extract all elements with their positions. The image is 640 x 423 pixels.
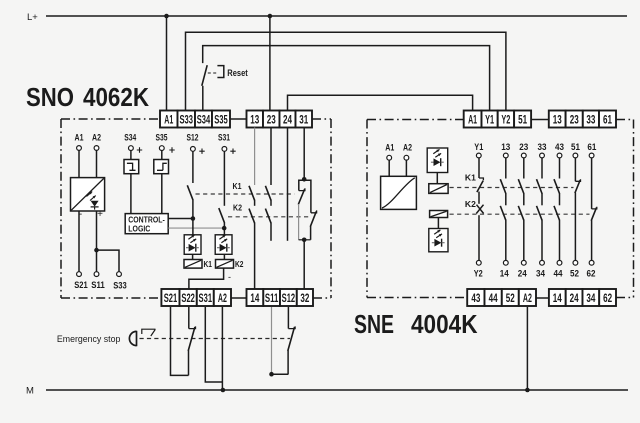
terminal Y2 (SNE): [498, 111, 514, 128]
terminal 43 (SNE): [467, 289, 484, 306]
wire L+ to SNO A1: [164, 14, 169, 111]
wire S31 to A2 node: [205, 307, 222, 382]
L+ supply rail: [27, 12, 627, 23]
wire K2 coil to S22: [189, 268, 231, 289]
svg-text:A2: A2: [403, 143, 412, 154]
wire power minus to S21 internal: [78, 211, 80, 272]
wire A2 to power supply (SNO): [96, 150, 98, 177]
svg-text:13: 13: [553, 115, 562, 127]
falling-edge detector box (S34): [124, 160, 139, 174]
svg-text:K2: K2: [465, 199, 476, 209]
svg-text:14: 14: [500, 269, 510, 280]
svg-text:4062K: 4062K: [83, 82, 149, 112]
power supply unit U1 (SNO): [71, 178, 105, 221]
svg-text:Y2: Y2: [474, 269, 483, 280]
wire A2 (SNE) to M rail: [525, 307, 530, 392]
wire A2 (SNO) to M rail: [221, 307, 226, 392]
terminal 23 (SNO): [263, 111, 280, 128]
svg-text:S35: S35: [214, 115, 228, 127]
svg-text:S33: S33: [113, 281, 127, 292]
K2 actuation dashed line (SNE): [450, 199, 590, 214]
wire A1 to power supply (SNO): [78, 150, 80, 177]
contact chain 23-24 (K1,K2 NO) (SNE): [518, 142, 529, 280]
terminal S11 (SNO): [263, 289, 280, 306]
svg-text:K1: K1: [465, 173, 476, 183]
svg-text:S21: S21: [164, 293, 178, 305]
svg-text:K1: K1: [204, 259, 213, 269]
wire S11 to emergency stop contact 2: [269, 307, 288, 377]
terminal 24 (SNO): [280, 111, 296, 128]
svg-text:A1: A1: [164, 115, 173, 127]
rising-edge detector box (S35): [154, 160, 169, 174]
svg-text:31: 31: [299, 115, 308, 127]
K1 actuation dashed line (SNE): [450, 173, 574, 188]
M supply rail: [26, 386, 628, 397]
terminal 33 (SNE): [583, 111, 599, 128]
terminal A1 (SNO): [160, 111, 178, 128]
terminal 44 (SNE): [485, 289, 502, 306]
terminal 34 (SNE): [583, 289, 600, 306]
wire branch to S33 internal: [97, 250, 120, 272]
contact chain 13-14 (K1,K2 NO) (SNE): [500, 142, 511, 280]
K1 actuation dashed line (SNO): [196, 181, 295, 194]
terminal 23 (SNE): [566, 111, 583, 128]
terminal 14 (SNO): [247, 289, 264, 306]
svg-text:4004K: 4004K: [411, 309, 478, 339]
terminal 24 (SNE): [566, 289, 583, 306]
node A2 internal (SNO): [92, 133, 101, 151]
contact chain 43-44 (K1,K2 NO) (SNE): [554, 142, 565, 280]
node S21 internal (SNO): [74, 272, 88, 291]
terminal A2 (SNE): [519, 289, 536, 306]
node S35 internal (SNO): [156, 133, 175, 153]
svg-text:S12: S12: [187, 133, 199, 144]
svg-text:61: 61: [587, 142, 597, 153]
svg-text:13: 13: [250, 115, 259, 127]
svg-text:S12: S12: [282, 293, 296, 305]
svg-text:51: 51: [518, 115, 527, 127]
terminal S31 (SNO): [197, 289, 214, 306]
svg-text:A2: A2: [523, 293, 532, 305]
CONTROL-LOGIC block (SNO): [125, 214, 168, 234]
terminal A2 (SNO): [214, 289, 231, 306]
svg-text:14: 14: [250, 293, 259, 305]
SNE 4004K module label: [354, 309, 478, 339]
terminal 52 (SNE): [502, 289, 519, 306]
svg-text:A1: A1: [385, 143, 395, 154]
LED indicator K2 (SNO): [215, 235, 232, 255]
relay coil K2 (SNE): [430, 211, 448, 218]
svg-text:S31: S31: [199, 293, 213, 305]
terminal 31 (SNO): [296, 111, 313, 128]
terminal Y1 (SNE): [482, 111, 498, 128]
svg-text:44: 44: [489, 293, 498, 305]
svg-text:M: M: [26, 386, 34, 397]
terminal 13 (SNE): [549, 111, 566, 128]
svg-text:62: 62: [587, 269, 596, 280]
node S31 internal (SNO): [218, 133, 236, 154]
wire S31 with K2 feedback contact: [219, 151, 225, 235]
contact chain 23 (K1,K2 NO): [265, 128, 271, 241]
node A2 internal (SNE): [403, 143, 412, 161]
svg-text:33: 33: [538, 142, 547, 153]
contact chain 31-32 (K1,K2 NC parallel): [298, 128, 316, 290]
feedback chain Y1-Y2 (K1,K2 NC): [474, 142, 484, 280]
emergency stop NC contact channel 2 (S11-S12): [288, 307, 295, 374]
node A1 internal (SNO): [75, 133, 85, 151]
terminal S22 (SNO): [180, 289, 197, 306]
node S34 internal (SNO): [124, 133, 142, 153]
svg-text:34: 34: [536, 269, 546, 280]
emergency stop NC contact channel 1 (S21-S22): [188, 307, 195, 375]
svg-text:24: 24: [283, 115, 292, 127]
relay coil K1 (SNO): [184, 254, 212, 268]
node S11 internal (SNO): [91, 272, 105, 291]
Emergency stop button: [57, 329, 156, 346]
svg-text:S11: S11: [265, 293, 279, 305]
terminal S21 (SNO): [161, 289, 179, 306]
svg-text:24: 24: [518, 269, 528, 280]
terminal 13 (SNO): [247, 111, 264, 128]
svg-text:-: -: [228, 272, 231, 282]
svg-text:K2: K2: [233, 203, 242, 213]
wire edge detector to control logic (S34): [130, 174, 132, 214]
svg-text:23: 23: [519, 142, 528, 153]
svg-text:S35: S35: [156, 133, 169, 144]
SNO module dash-dot border: [61, 119, 331, 298]
svg-text:LOGIC: LOGIC: [128, 225, 150, 234]
wire S35 to edge detector: [161, 151, 163, 160]
svg-text:52: 52: [570, 269, 579, 280]
pushbutton Reset: [202, 65, 249, 86]
svg-text:Y1: Y1: [474, 142, 484, 153]
svg-text:K2: K2: [235, 259, 244, 269]
terminal S35 (SNO): [212, 111, 230, 128]
svg-text:52: 52: [506, 293, 515, 305]
LED indicator K2 (SNE): [429, 218, 448, 252]
svg-text:SNE: SNE: [354, 309, 394, 339]
svg-text:A2: A2: [218, 293, 227, 305]
wire control logic to K2 coil branch: [168, 226, 226, 231]
svg-text:A2: A2: [92, 133, 101, 144]
svg-text:K1: K1: [233, 181, 242, 191]
svg-text:Emergency stop: Emergency stop: [57, 334, 121, 345]
svg-text:+: +: [97, 209, 103, 220]
svg-text:SNO: SNO: [26, 82, 74, 112]
terminal 14 (SNE): [549, 289, 566, 306]
svg-text:34: 34: [586, 293, 595, 305]
svg-text:CONTROL-: CONTROL-: [128, 216, 165, 225]
link 51-13 terminal groups (SNE): [531, 119, 549, 121]
svg-text:L+: L+: [27, 12, 38, 23]
wire power plus to S11 internal: [94, 211, 99, 272]
svg-text:S21: S21: [74, 280, 88, 291]
terminal 32 (SNO): [297, 289, 313, 306]
link A2-14 terminal groups: [231, 297, 247, 299]
svg-text:Y2: Y2: [501, 115, 510, 127]
emergency stop actuation dashed line: [140, 338, 291, 340]
svg-text:Reset: Reset: [227, 68, 248, 79]
wire 24 stub: [287, 128, 289, 241]
contact chain 33-34 (K1,K2 NO) (SNE): [536, 142, 547, 280]
link S35-13 terminal groups: [230, 118, 247, 120]
svg-text:S31: S31: [218, 133, 231, 144]
terminal A1 (SNE): [464, 111, 482, 128]
svg-text:33: 33: [586, 115, 595, 127]
svg-text:S34: S34: [197, 115, 211, 127]
svg-text:62: 62: [603, 293, 612, 305]
svg-text:43: 43: [471, 293, 480, 305]
wire edge detector to control logic (S35): [161, 174, 163, 214]
svg-text:13: 13: [501, 142, 510, 153]
svg-text:23: 23: [267, 115, 276, 127]
node S12 internal (SNO): [187, 133, 205, 154]
svg-text:23: 23: [570, 115, 579, 127]
wire SNO 24 to SNE A1: [288, 95, 473, 110]
svg-text:44: 44: [554, 269, 564, 280]
svg-text:S22: S22: [181, 293, 195, 305]
svg-text:Y1: Y1: [485, 115, 494, 127]
wire SNO S33 to SNE Y2: [186, 32, 506, 110]
terminal 62 (SNE): [599, 289, 616, 306]
relay coil K2 (SNO): [216, 254, 244, 268]
wire A2 to power supply (SNE): [405, 160, 407, 176]
wire S12 with K1 feedback contact: [187, 151, 193, 235]
svg-text:A1: A1: [468, 115, 477, 127]
svg-text:43: 43: [555, 142, 564, 153]
contact chain 61-62 (K2 NC) (SNE): [587, 142, 598, 280]
relay coil K1 (SNE): [429, 173, 448, 194]
LED indicator K1 (SNO): [184, 235, 201, 255]
terminal S34 (SNO): [195, 111, 212, 128]
node S33 internal (SNO): [113, 272, 127, 292]
svg-text:A1: A1: [75, 133, 85, 144]
svg-text:61: 61: [603, 115, 612, 127]
wire S34 to edge detector: [130, 151, 132, 160]
svg-text:51: 51: [571, 142, 581, 153]
terminal S12 (SNO): [280, 289, 297, 306]
power supply unit U2 (SNE): [381, 176, 417, 209]
wire control logic to K1 coil branch: [168, 216, 195, 221]
wire SNO S34 to SNE Y1 via Reset: [203, 46, 490, 111]
svg-text:32: 32: [300, 293, 309, 305]
terminal 51 (SNE): [514, 111, 531, 128]
terminal 61 (SNE): [599, 111, 616, 128]
wire A1 to power supply (SNE): [388, 160, 390, 176]
SNE module dash-dot border: [367, 120, 634, 298]
contact chain 13-14 (K1,K2 NO): [249, 128, 255, 290]
K2 actuation dashed line (SNO): [228, 203, 309, 217]
terminal S33 (SNO): [178, 111, 196, 128]
svg-text:14: 14: [553, 293, 562, 305]
SNO 4062K module label: [26, 82, 149, 112]
svg-text:24: 24: [570, 293, 579, 305]
wire S21 loop to emergency stop contact 1: [171, 307, 189, 375]
contact chain 51-52 (K1 NC) (SNE): [570, 142, 581, 280]
node A1 internal (SNE): [385, 143, 395, 161]
svg-text:S34: S34: [124, 133, 137, 144]
link A2-14 terminal groups (SNE): [536, 297, 549, 299]
wire L+ to SNO 23: [268, 14, 273, 111]
svg-text:S11: S11: [91, 280, 105, 291]
LED indicator K1 (SNE): [427, 148, 448, 173]
svg-text:S33: S33: [180, 115, 194, 127]
